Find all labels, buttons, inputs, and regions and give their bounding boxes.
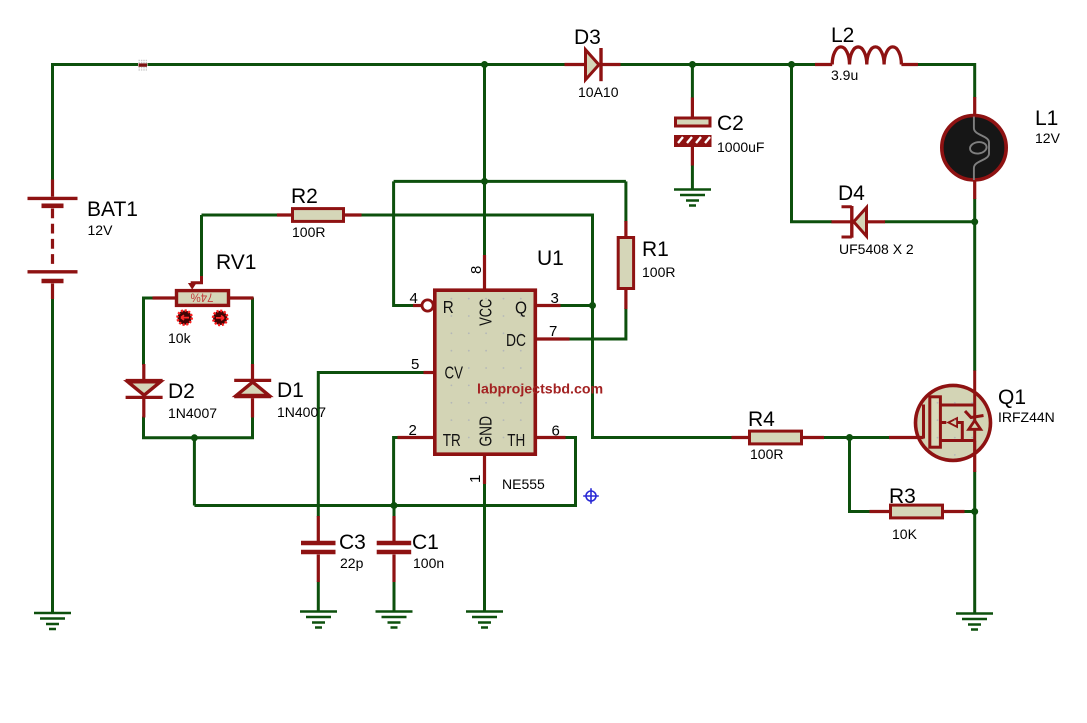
svg-text:D2: D2 xyxy=(168,380,195,403)
wire down to U1 pin 4 xyxy=(394,181,413,305)
svg-text:IRFZ44N: IRFZ44N xyxy=(998,409,1055,425)
node bottom rail / C1 xyxy=(391,502,398,509)
wire U1 pin 5 CV to C3 xyxy=(318,373,424,517)
svg-text:R2: R2 xyxy=(291,185,318,208)
svg-text:3: 3 xyxy=(551,290,559,307)
svg-text:100R: 100R xyxy=(292,224,325,240)
wire L2 to lamp L1 top (top rail right) xyxy=(918,65,975,98)
svg-text:3.9u: 3.9u xyxy=(831,67,858,83)
wire R2 left corner down to RV1 wiper xyxy=(202,215,278,278)
wire U1 pin 1 GND to ground xyxy=(483,484,486,612)
wire battery top to D3 anode (top rail left) xyxy=(53,65,566,182)
wire D3 cathode to L2 (top rail middle) xyxy=(620,63,815,66)
svg-text:74%: 74% xyxy=(190,291,213,303)
wire RV1 right pin down to D1 xyxy=(251,298,254,366)
svg-text:100n: 100n xyxy=(413,555,444,571)
svg-text:100R: 100R xyxy=(642,264,675,280)
op-amp U1 NE555 body xyxy=(398,255,570,484)
svg-text:5: 5 xyxy=(411,356,419,373)
wire D4 left branch xyxy=(792,65,833,222)
wire bottom rail TR/TH net xyxy=(194,438,575,506)
svg-text:1000uF: 1000uF xyxy=(717,139,764,155)
diode D3 (points right) xyxy=(565,48,621,81)
svg-text:TH: TH xyxy=(507,430,525,450)
inductor L2 xyxy=(815,47,918,65)
node pin4 link / VCC drop xyxy=(481,178,488,185)
wire C1 top xyxy=(393,506,396,517)
svg-text:labprojectsbd.com: labprojectsbd.com xyxy=(477,382,603,398)
resistor R4 xyxy=(732,431,825,444)
svg-text:1N4007: 1N4007 xyxy=(168,405,217,421)
wire R2 right to Q node down to R4 row xyxy=(361,215,732,438)
diode D1 (cathode up) xyxy=(234,364,271,418)
node R3 / source xyxy=(971,508,978,515)
svg-text:8: 8 xyxy=(468,266,485,274)
node lamp bottom / D4 xyxy=(971,218,978,225)
node top rail / C2 xyxy=(689,61,696,68)
ground C3 xyxy=(300,612,337,628)
wire diode junction down to bottom rail xyxy=(193,438,196,506)
wire VCC drop to U1 pin 8 xyxy=(483,65,486,257)
svg-text:VCC: VCC xyxy=(476,299,496,326)
wire D4 right to lamp bottom node xyxy=(885,220,975,223)
potentiometer RV1 xyxy=(153,276,254,305)
wire D2 bottom to D1 bottom xyxy=(144,417,253,438)
svg-text:RV1: RV1 xyxy=(216,251,256,274)
wire U1 pin 3 Q to node xyxy=(560,304,593,307)
svg-text:Q1: Q1 xyxy=(998,386,1026,409)
svg-text:100R: 100R xyxy=(750,446,783,462)
svg-text:R3: R3 xyxy=(889,485,916,508)
svg-text:C2: C2 xyxy=(717,112,744,135)
diode D4 (points left, UF5408) xyxy=(832,206,886,238)
wire C3 bottom to ground xyxy=(317,582,320,612)
ground U1 pin1 xyxy=(466,612,503,628)
wire R1 top xyxy=(624,181,627,222)
RV1 knob left xyxy=(178,311,192,325)
grid speckles on component fills xyxy=(451,298,974,456)
svg-text:BAT1: BAT1 xyxy=(87,198,138,221)
ground C2 xyxy=(674,190,711,206)
node gate / R3 branch xyxy=(846,434,853,441)
svg-text:CV: CV xyxy=(445,363,464,383)
lamp L1 xyxy=(942,97,1006,199)
svg-text:7: 7 xyxy=(549,323,557,340)
svg-text:R: R xyxy=(443,297,454,317)
node D1 D2 bottom xyxy=(191,434,198,441)
svg-text:C1: C1 xyxy=(412,531,439,554)
capacitor C3 xyxy=(301,516,336,582)
wire label marker (grey) xyxy=(138,60,148,71)
svg-text:D1: D1 xyxy=(277,379,304,402)
transistor Q1 IRFZ44N xyxy=(889,371,991,473)
svg-text:GND: GND xyxy=(476,416,496,447)
ground C1 xyxy=(376,612,413,628)
svg-text:10A10: 10A10 xyxy=(578,84,619,100)
wire R1 bottom to U1 pin 7 xyxy=(569,308,626,339)
svg-text:Q: Q xyxy=(515,298,527,318)
svg-text:12V: 12V xyxy=(1035,130,1061,146)
battery BAT1 xyxy=(28,180,78,300)
svg-text:DC: DC xyxy=(506,330,526,350)
svg-text:22p: 22p xyxy=(340,555,364,571)
svg-text:10K: 10K xyxy=(892,526,918,542)
ground Q1 source xyxy=(956,614,993,630)
wire R4 right to Q1 gate xyxy=(824,436,890,439)
wire C2 bottom to ground xyxy=(691,165,694,189)
svg-text:4: 4 xyxy=(410,290,418,307)
resistor R1 xyxy=(618,221,633,309)
ground battery xyxy=(34,613,71,629)
resistor R3 xyxy=(870,505,965,518)
svg-text:R4: R4 xyxy=(748,408,775,431)
wire U1 pin 2 TR corner xyxy=(394,438,398,506)
svg-text:U1: U1 xyxy=(537,247,564,270)
svg-text:UF5408 X 2: UF5408 X 2 xyxy=(839,241,914,257)
wire Q1 source to ground xyxy=(973,472,976,614)
node top rail / VCC drop xyxy=(481,61,488,68)
resistor R2 xyxy=(277,209,362,222)
capacitor C2 (polarized) xyxy=(674,98,712,166)
node top rail / D4 branch xyxy=(788,61,795,68)
RV1 knob right xyxy=(213,311,227,325)
svg-text:L2: L2 xyxy=(831,24,854,47)
svg-text:1N4007: 1N4007 xyxy=(277,404,326,420)
wire C1 bottom to ground xyxy=(393,582,396,612)
svg-text:12V: 12V xyxy=(88,222,114,238)
wire C2 top xyxy=(691,65,694,99)
svg-text:D3: D3 xyxy=(574,26,601,49)
node Q output xyxy=(589,302,596,309)
svg-text:TR: TR xyxy=(443,430,461,450)
diode D2 (cathode down) xyxy=(126,364,163,418)
svg-text:L1: L1 xyxy=(1035,107,1058,130)
capacitor C1 xyxy=(377,516,412,582)
svg-text:10k: 10k xyxy=(168,330,192,346)
wire gate node down to R3 xyxy=(850,438,871,512)
wire reset/VCC link row y=181 xyxy=(394,180,626,183)
svg-text:R1: R1 xyxy=(642,238,669,261)
wire battery bottom to ground xyxy=(51,298,54,613)
wire R2 left xyxy=(278,214,293,217)
no-ERC blue marker xyxy=(583,488,599,504)
svg-text:NE555: NE555 xyxy=(502,476,545,492)
wire RV1 left pin down to D2 xyxy=(144,298,154,365)
svg-text:D4: D4 xyxy=(838,182,865,205)
wire R3 right to source xyxy=(964,510,975,513)
svg-text:C3: C3 xyxy=(339,531,366,554)
svg-text:1: 1 xyxy=(467,475,484,483)
svg-text:6: 6 xyxy=(552,423,560,440)
svg-text:2: 2 xyxy=(409,422,417,439)
wire lamp bottom to Q1 drain xyxy=(973,199,976,372)
